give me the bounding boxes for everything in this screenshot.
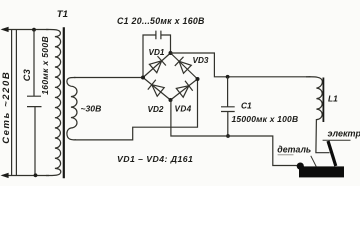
transformer T1 primary winding [46, 29, 61, 175]
wire C1 to bridge top stub [161, 35, 171, 53]
svg-text:T1: T1 [57, 9, 68, 20]
label деталь underline [278, 154, 294, 156]
node big cap top junction [226, 75, 230, 79]
node bridge bottom corner [169, 98, 173, 102]
wire bridge arm B-R [171, 79, 198, 100]
label pointer to workpiece [311, 156, 316, 167]
diode VD2 [152, 85, 164, 97]
svg-text:VD2: VD2 [148, 105, 164, 114]
svg-text:деталь: деталь [277, 144, 311, 154]
wire bridge arm L-T [143, 53, 171, 78]
node C3 bottom junction [34, 173, 38, 177]
svg-text:Сеть ~220В: Сеть ~220В [1, 71, 12, 144]
wire vertical pair right line [15, 30, 17, 176]
diode VD1 [149, 61, 161, 73]
svg-text:VD3: VD3 [193, 56, 209, 65]
wire big cap top lead [227, 77, 229, 107]
node big cap bottom junction [226, 134, 230, 138]
workpiece black bar [299, 166, 344, 177]
node C3 top junction [32, 28, 36, 32]
svg-text:L1: L1 [328, 94, 338, 104]
wire secondary top to bridge [74, 77, 143, 79]
svg-text:электрод: электрод [328, 129, 360, 139]
capacitor C1 filter 15000мк [221, 107, 235, 112]
capacitor C1 smoothing small [156, 31, 161, 40]
svg-text:~30В: ~30В [81, 103, 102, 113]
svg-text:VD1: VD1 [149, 48, 165, 57]
svg-text:C1: C1 [241, 101, 252, 111]
wire secondary bottom [75, 79, 198, 140]
node bridge top corner [169, 51, 173, 55]
wire C3 bottom lead [34, 107, 36, 176]
svg-text:160мк x 500В: 160мк x 500В [40, 36, 50, 95]
inductor L1 and electrode holder wire [306, 77, 330, 153]
diode VD3 [179, 61, 191, 73]
wire bridge left stub up [143, 35, 156, 78]
wire negative net [171, 100, 298, 166]
workpiece terminal blob [297, 163, 304, 170]
wire positive output [171, 53, 311, 77]
diode VD4 [176, 86, 189, 98]
transformer T1 secondary winding [67, 77, 77, 139]
inductor L1 core [322, 78, 324, 123]
electrode stroke [328, 141, 336, 166]
wire top mains [3, 29, 49, 31]
svg-text:15000мк x 100В: 15000мк x 100В [232, 114, 299, 124]
mains arrow bottom [1, 173, 9, 178]
wire big cap bottom lead [227, 112, 229, 137]
node bridge left corner [141, 76, 145, 80]
label электрод underline [323, 139, 351, 141]
capacitor C3 [27, 96, 42, 106]
mains arrow top [1, 27, 9, 32]
wire vertical pair left line [11, 30, 13, 176]
svg-text:C1 20...50мк x 160В: C1 20...50мк x 160В [117, 16, 205, 26]
transformer T1 core [63, 27, 65, 178]
svg-text:VD1 – VD4: Д161: VD1 – VD4: Д161 [117, 154, 193, 164]
wire bottom mains [3, 175, 50, 177]
node bridge right corner [196, 77, 200, 81]
wire bridge arm L-B [143, 78, 171, 101]
svg-text:VD4: VD4 [175, 105, 192, 114]
wire C3 top lead [33, 30, 35, 97]
svg-text:C3: C3 [22, 69, 32, 81]
wire bridge arm T-R [171, 53, 198, 79]
